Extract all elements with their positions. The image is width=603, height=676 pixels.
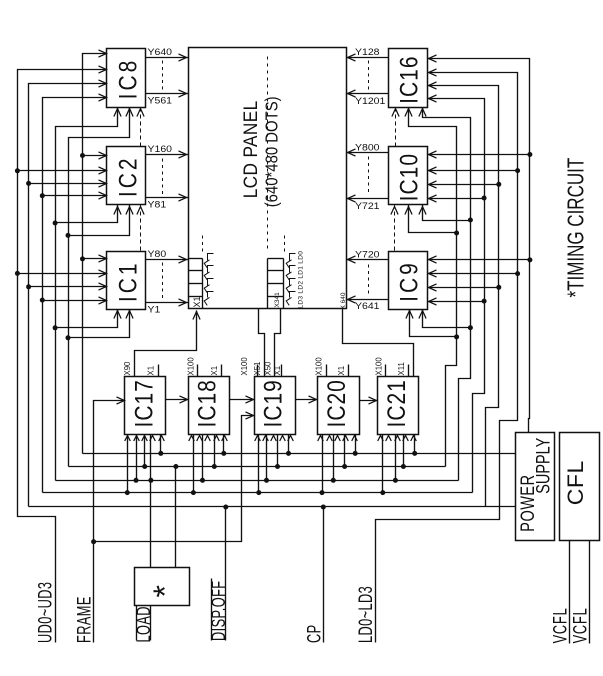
row driver IC1 xyxy=(107,252,146,310)
wire IC9 in1 xyxy=(428,256,530,263)
staircase R1 to power supply xyxy=(529,407,530,433)
wire IC20 bottom pin4 xyxy=(353,435,358,456)
row driver IC2 xyxy=(107,147,146,205)
wire IC18 bottom pin2 xyxy=(200,435,205,483)
panel center dashed axis xyxy=(267,57,269,251)
wire IC10 in4 xyxy=(428,195,485,202)
wire IC10 bottom pin3 xyxy=(419,205,471,221)
svg-text:X1: X1 xyxy=(210,366,219,376)
svg-text:X100: X100 xyxy=(374,357,383,376)
junction L4/IC1 xyxy=(53,325,58,330)
dashed ellipsis above left ladder xyxy=(202,236,204,252)
IC19 funnel X51 X50 to panel xyxy=(253,309,281,377)
wire IC21 bottom pin2 xyxy=(393,435,398,483)
net Y80 wire xyxy=(146,250,189,263)
row driver IC8 xyxy=(107,49,146,108)
wire IC17 bottom pin1 xyxy=(125,435,130,496)
svg-text:UD0~UD3: UD0~UD3 xyxy=(35,582,56,643)
svg-text:IC10: IC10 xyxy=(395,153,423,201)
IC21 bottom pin arrows xyxy=(378,436,417,442)
wire IC20 bottom pin1 xyxy=(320,435,325,496)
bus wire L4 xyxy=(56,108,122,481)
cascade IC20-IC21 xyxy=(360,397,378,404)
svg-text:Y128: Y128 xyxy=(355,48,379,58)
dashed ellipsis above middle ladder xyxy=(284,236,286,252)
IC19 pin X100 xyxy=(240,357,258,377)
wire IC9 bottom pin1 xyxy=(406,310,457,337)
dashed ellipsis between Y outputs left xyxy=(162,61,164,299)
junction L4/IC2 xyxy=(53,221,58,226)
svg-text:X11: X11 xyxy=(397,362,406,375)
column driver IC21 xyxy=(378,377,419,435)
bus wire L6 xyxy=(83,50,107,454)
net CP riser xyxy=(321,505,326,643)
row driver IC16 xyxy=(389,49,428,108)
svg-text:X1: X1 xyxy=(337,366,346,376)
bus wire L3 xyxy=(43,94,107,493)
junction L6/IC2 xyxy=(80,153,85,158)
wire IC10 in3 xyxy=(428,181,499,188)
IC18 pin X100 xyxy=(186,357,197,377)
junction L5/IC1 xyxy=(66,335,71,340)
junction R5/IC10 xyxy=(454,231,459,236)
wire IC21 bottom pin1 xyxy=(380,435,385,496)
svg-text:Y721: Y721 xyxy=(355,201,379,211)
svg-text:SUPPLY: SUPPLY xyxy=(531,437,554,494)
wire VCFL 1 xyxy=(569,541,571,644)
IC21 pin X11 riser from panel xyxy=(343,309,414,377)
svg-text:LD0~LD3: LD0~LD3 xyxy=(356,586,377,643)
wire IC2 in2 xyxy=(18,167,107,174)
net Y720 wire xyxy=(347,250,389,263)
junction L3/IC1 xyxy=(40,298,45,303)
svg-text:X1: X1 xyxy=(147,366,156,376)
svg-text:X1: X1 xyxy=(273,366,282,376)
label LOAD (active low) xyxy=(133,606,154,643)
net Y1 wire xyxy=(146,299,189,316)
net Y721 wire xyxy=(347,195,389,212)
dashed cascade IC8-IC2 xyxy=(137,108,144,147)
IC19 pin X1 xyxy=(273,365,282,377)
svg-text:CFL: CFL xyxy=(564,460,588,505)
wire IC2 bottom pin1 xyxy=(56,205,122,223)
svg-text:IC1: IC1 xyxy=(114,260,142,302)
IC18 bottom pin arrows xyxy=(189,436,228,442)
svg-text:Y640: Y640 xyxy=(148,48,173,58)
wire IC19 bottom pin4 xyxy=(286,435,291,456)
cascade IC17-IC18 xyxy=(166,396,189,403)
svg-text:VCFL: VCFL xyxy=(570,608,591,644)
column driver IC19 xyxy=(255,377,296,435)
net Y641 wire xyxy=(347,296,389,312)
wire IC21 bottom pin3 xyxy=(401,435,406,470)
wire IC18 bottom pin3 xyxy=(212,435,217,470)
svg-text:LD3 LD2 LD1 LD0: LD3 LD2 LD1 LD0 xyxy=(298,251,305,309)
svg-text:X100: X100 xyxy=(240,357,249,376)
svg-text:IC2: IC2 xyxy=(114,155,142,197)
bus wire R6 xyxy=(419,108,471,481)
net DISP.OFF riser xyxy=(223,505,228,641)
svg-text:Y160: Y160 xyxy=(148,144,173,154)
svg-text:X51: X51 xyxy=(253,362,262,376)
svg-text:IC20: IC20 xyxy=(322,379,350,427)
svg-text:X50: X50 xyxy=(264,361,273,376)
svg-text:IC17: IC17 xyxy=(129,379,157,427)
junction R4/IC9 xyxy=(482,299,487,304)
junction R3/IC10 xyxy=(496,182,501,187)
wire IC17 bottom pin3 xyxy=(142,435,147,470)
junction R5/IC9 xyxy=(454,334,459,339)
bus1 horizontal xyxy=(83,453,517,455)
IC18 pin X1 xyxy=(210,365,221,377)
wire IC20 bottom pin3 xyxy=(342,435,347,470)
dashed ellipsis between Y outputs right xyxy=(368,61,370,297)
IC20 pin X100 xyxy=(315,357,327,377)
svg-text:IC21: IC21 xyxy=(382,379,410,427)
wire IC1 bottom pin1 xyxy=(56,310,122,328)
bus wire L2 xyxy=(29,80,107,507)
IC19 bottom pin arrows xyxy=(255,436,294,442)
net Y800 wire xyxy=(347,143,389,156)
wire IC20 bottom pin2 xyxy=(331,435,336,483)
wire IC9 bottom pin2 xyxy=(419,310,471,328)
svg-text:X341: X341 xyxy=(274,292,281,308)
junction L1/IC2 xyxy=(15,168,20,173)
bus wire R4 xyxy=(428,95,485,493)
junction L2/IC1 xyxy=(26,284,31,289)
wire IC10 bottom pin2 xyxy=(405,205,457,233)
svg-text:FRAME: FRAME xyxy=(74,596,95,643)
svg-text:Y81: Y81 xyxy=(148,200,167,210)
dashed cascade IC10-IC9 xyxy=(391,205,398,252)
junction R2/IC9 xyxy=(515,271,520,276)
IC17 bottom pin arrows xyxy=(125,436,165,442)
bus3 horizontal xyxy=(56,480,459,482)
svg-text:X90: X90 xyxy=(123,361,132,376)
junction R6/IC9 xyxy=(468,325,473,330)
svg-text:X100: X100 xyxy=(315,357,324,376)
svg-text:Y80: Y80 xyxy=(148,250,167,260)
column driver IC20 xyxy=(318,377,360,435)
wire IC18 bottom pin4 xyxy=(221,435,226,456)
svg-text:VCFL: VCFL xyxy=(550,608,571,644)
row driver IC9 xyxy=(389,252,428,310)
junction FRAME branch xyxy=(91,539,96,544)
wire IC9 in2 xyxy=(428,270,518,277)
junction L6/IC1 xyxy=(80,256,85,261)
svg-text:IC19: IC19 xyxy=(259,379,287,427)
junction R4/IC10 xyxy=(482,196,487,201)
svg-text:IC18: IC18 xyxy=(193,379,221,427)
wire IC17 bottom pin2 xyxy=(134,435,139,483)
junction L1/IC1 xyxy=(15,271,20,276)
panel X driver ladder left xyxy=(189,254,214,309)
wire IC1 bottom pin2 xyxy=(69,310,134,338)
wire * output 1 to bus3 xyxy=(148,435,153,568)
IC21 pin X100 xyxy=(374,357,385,377)
wire IC2 in4 xyxy=(43,192,107,199)
label DISP.OFF (active low) xyxy=(209,579,230,642)
wire FRAME to IC19 second input xyxy=(94,412,255,542)
IC17 pin X1 xyxy=(147,365,159,377)
svg-text:IC9: IC9 xyxy=(395,260,423,302)
svg-text:Y561: Y561 xyxy=(148,96,172,106)
timing block U* (LOAD) xyxy=(135,568,190,606)
cascade IC18-IC19 xyxy=(230,396,255,403)
junction R2/IC10 xyxy=(515,168,520,173)
svg-text:X1: X1 xyxy=(192,296,202,307)
svg-text:*TIMING CIRCUIT: *TIMING CIRCUIT xyxy=(564,158,589,298)
wire IC19 bottom pin1 xyxy=(256,435,261,496)
svg-text:(640*480 DOTS): (640*480 DOTS) xyxy=(263,96,282,207)
junction L2/IC2 xyxy=(26,181,31,186)
svg-text:*: * xyxy=(147,585,183,597)
wire IC1 in3 xyxy=(29,283,107,290)
junction L5/IC2 xyxy=(66,233,71,238)
svg-text:Y1: Y1 xyxy=(148,305,161,315)
wire IC18 bottom pin1 xyxy=(191,435,196,496)
bus wire R1 xyxy=(428,55,530,407)
svg-text:Y641: Y641 xyxy=(355,302,379,312)
bus wire R3 xyxy=(428,82,499,507)
LCD panel label xyxy=(239,96,282,207)
wire IC2 in1 xyxy=(83,152,107,159)
dashed cascade IC2-IC1 xyxy=(137,205,144,252)
net Y81 wire xyxy=(146,194,189,211)
column driver IC18 xyxy=(189,377,230,435)
svg-text:IC16: IC16 xyxy=(395,55,423,103)
wire IC10 in2 xyxy=(428,167,518,174)
wire LOAD input xyxy=(150,606,152,641)
net Y561 wire xyxy=(146,90,189,106)
junction R1/IC10 xyxy=(527,152,532,157)
svg-text:Y720: Y720 xyxy=(355,250,380,260)
junction R6/IC10 xyxy=(468,218,473,223)
junction R1/IC9 xyxy=(527,257,532,262)
bus wire R5 xyxy=(405,108,457,467)
junction L3/IC2 xyxy=(40,193,45,198)
bus wire R2 LD0~LD3 xyxy=(376,69,518,643)
junction R3/IC9 xyxy=(496,285,501,290)
cascade IC19-IC20 xyxy=(296,396,318,403)
panel X driver ladder middle xyxy=(268,254,296,309)
wire IC1 in4 xyxy=(43,297,107,304)
net Y128 wire xyxy=(347,48,389,61)
svg-text:X100: X100 xyxy=(186,357,195,376)
power supply unit xyxy=(516,433,555,541)
LCD panel U-LCD xyxy=(189,48,347,309)
svg-text:LCD PANEL: LCD PANEL xyxy=(239,100,261,198)
IC17 pin X90 riser to panel xyxy=(123,311,200,377)
wire IC19 bottom pin2 xyxy=(264,435,269,483)
column driver IC17 xyxy=(125,377,166,435)
wire * output 2 to bus2 xyxy=(173,464,178,568)
wire IC1 in2 xyxy=(18,270,107,277)
bus2 horizontal xyxy=(69,466,446,468)
net UD0~UD3 bus wire L1 xyxy=(18,66,107,643)
wire IC9 in4 xyxy=(428,298,485,305)
net Y160 wire xyxy=(146,144,189,158)
wire IC1 in1 xyxy=(83,255,107,262)
wire IC19 bottom pin3 xyxy=(275,435,280,470)
wire IC17 bottom pin4 xyxy=(158,435,163,456)
wire IC10 in1 xyxy=(428,151,530,158)
bus5 horizontal xyxy=(29,506,517,508)
row driver IC10 xyxy=(389,147,428,205)
net Y1201 wire xyxy=(347,90,389,107)
wire FRAME to IC17 DI xyxy=(94,397,125,643)
svg-text:Y1201: Y1201 xyxy=(355,96,385,106)
IC20 bottom pin arrows xyxy=(318,436,358,442)
wire IC2 in3 xyxy=(29,180,107,187)
bus wire L5 xyxy=(69,108,134,467)
svg-text:Y800: Y800 xyxy=(355,143,380,153)
wire IC9 in3 xyxy=(428,284,499,291)
wire IC21 bottom pin4 xyxy=(412,435,417,456)
dashed cascade IC16-IC10 xyxy=(392,108,399,147)
wire IC2 bottom pin2 xyxy=(69,205,134,236)
svg-text:CP: CP xyxy=(304,624,325,643)
net Y640 wire xyxy=(146,48,189,61)
CFL backlight unit xyxy=(560,433,600,541)
svg-text:X 640: X 640 xyxy=(340,292,347,309)
svg-text:IC8: IC8 xyxy=(114,58,142,100)
bus4 horizontal xyxy=(43,492,473,494)
IC20 pin X1 xyxy=(337,365,348,377)
wire VCFL 2 xyxy=(589,541,591,644)
